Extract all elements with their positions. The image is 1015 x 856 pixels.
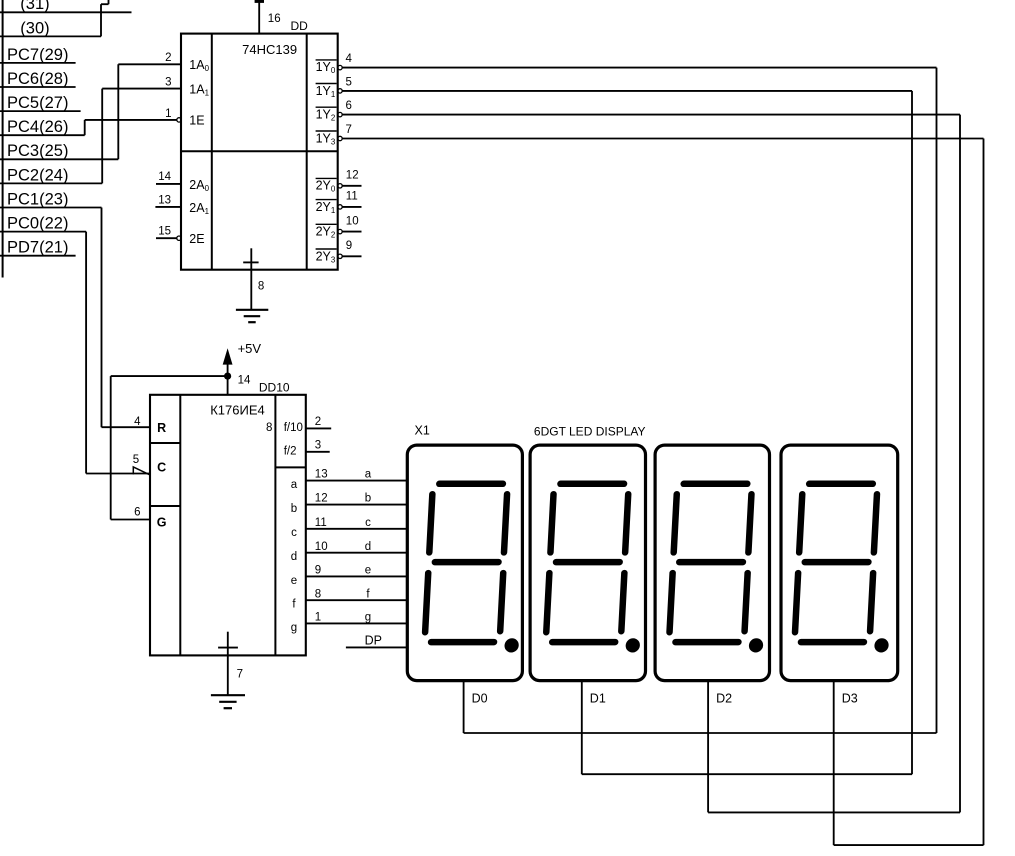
svg-text:PC4(26): PC4(26) [7, 118, 68, 136]
svg-text:12: 12 [315, 493, 328, 505]
svg-text:11: 11 [346, 191, 358, 203]
svg-text:6DGT LED DISPLAY: 6DGT LED DISPLAY [534, 424, 646, 438]
svg-text:b: b [291, 503, 297, 515]
svg-text:14: 14 [238, 375, 251, 387]
svg-text:74HC139: 74HC139 [242, 42, 297, 57]
svg-text:12: 12 [346, 170, 359, 182]
svg-text:5: 5 [346, 76, 352, 88]
svg-text:13: 13 [158, 194, 171, 206]
svg-text:PC1(23): PC1(23) [7, 190, 68, 208]
svg-text:2: 2 [315, 416, 321, 428]
svg-text:f/2: f/2 [284, 445, 297, 457]
svg-text:PC0(22): PC0(22) [7, 215, 68, 233]
svg-text:D2: D2 [716, 691, 732, 705]
svg-text:PC2(24): PC2(24) [7, 166, 68, 184]
svg-text:3: 3 [165, 77, 171, 89]
svg-text:14: 14 [158, 171, 171, 183]
svg-text:e: e [365, 565, 371, 577]
svg-text:DD: DD [291, 19, 309, 33]
svg-text:PD7(21): PD7(21) [7, 239, 68, 257]
svg-text:(30): (30) [20, 19, 49, 37]
svg-text:f/10: f/10 [284, 422, 303, 434]
svg-text:15: 15 [158, 226, 171, 238]
svg-text:c: c [291, 527, 297, 539]
svg-text:7: 7 [346, 124, 352, 136]
svg-text:X1: X1 [415, 424, 430, 438]
svg-text:D1: D1 [590, 691, 606, 705]
svg-text:D0: D0 [472, 691, 488, 705]
svg-text:D3: D3 [842, 691, 858, 705]
svg-text:b: b [365, 493, 371, 505]
svg-text:4: 4 [134, 416, 141, 428]
svg-text:8: 8 [258, 281, 264, 293]
svg-text:PC6(28): PC6(28) [7, 70, 68, 88]
svg-text:DP: DP [365, 634, 382, 648]
svg-text:PC7(29): PC7(29) [7, 46, 68, 64]
svg-text:1: 1 [315, 612, 321, 624]
svg-text:16: 16 [268, 13, 281, 25]
svg-text:10: 10 [315, 541, 328, 553]
svg-text:d: d [365, 541, 371, 553]
svg-text:6: 6 [346, 100, 352, 112]
svg-text:9: 9 [346, 240, 352, 252]
svg-text:a: a [365, 469, 372, 481]
svg-text:13: 13 [315, 469, 328, 481]
svg-text:7: 7 [237, 668, 243, 680]
svg-text:(31): (31) [20, 0, 49, 13]
svg-text:g: g [291, 622, 297, 634]
svg-text:4: 4 [346, 53, 353, 65]
svg-text:3: 3 [315, 440, 321, 452]
svg-text:1: 1 [165, 108, 171, 120]
svg-text:a: a [291, 479, 298, 491]
svg-text:d: d [291, 551, 297, 563]
svg-text:11: 11 [315, 517, 327, 529]
svg-text:2E: 2E [189, 232, 204, 246]
svg-text:8: 8 [266, 422, 272, 434]
svg-text:C: C [157, 460, 166, 474]
svg-text:PC5(27): PC5(27) [7, 94, 68, 112]
svg-text:10: 10 [346, 215, 359, 227]
svg-text:R: R [157, 421, 166, 435]
svg-text:К176ИЕ4: К176ИЕ4 [210, 402, 265, 417]
svg-text:1E: 1E [189, 113, 204, 127]
svg-text:9: 9 [315, 565, 321, 577]
svg-text:5: 5 [133, 454, 139, 466]
svg-text:2: 2 [165, 52, 171, 64]
svg-text:+5V: +5V [238, 341, 262, 356]
svg-text:6: 6 [134, 507, 140, 519]
svg-text:DD10: DD10 [259, 380, 290, 394]
svg-text:e: e [291, 575, 297, 587]
svg-text:c: c [365, 517, 371, 529]
svg-text:G: G [157, 516, 167, 530]
svg-text:g: g [365, 612, 371, 624]
svg-text:PC3(25): PC3(25) [7, 142, 68, 160]
svg-text:8: 8 [315, 588, 321, 600]
